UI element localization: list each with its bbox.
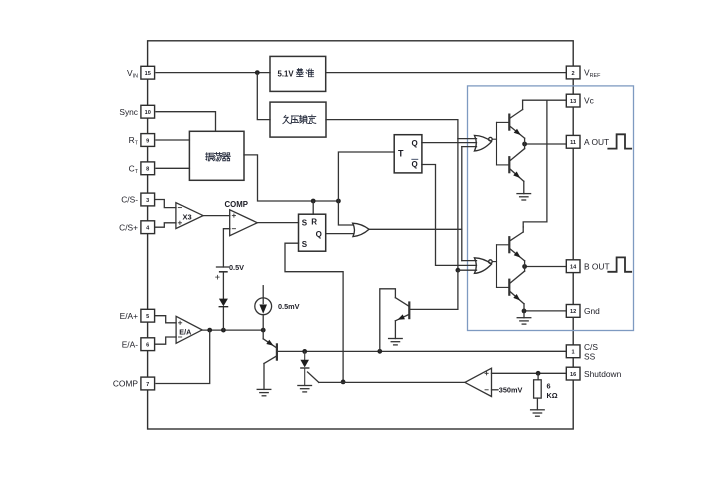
wire B lower emitter to Gnd pin [524,310,565,312]
wire T flip-flop Qbar to B NOR [422,165,477,266]
node Vin tap [255,70,260,75]
node E/A out current source [261,328,266,333]
svg-text:Vc: Vc [584,96,594,106]
pin 7 COMP [113,377,155,390]
pin 10 Sync [119,105,154,118]
NPN transistor Q3 (A upper) [509,100,524,144]
wire PWM bus [461,147,463,261]
wire comparator minus to 0.5V [223,229,230,267]
wire shutdown comparator output [319,381,465,383]
ground G2 (blanking emitter) [389,339,403,345]
svg-text:E/A+: E/A+ [120,311,138,321]
wire clamp diode diagonal to shutdown line [308,372,319,382]
NPN transistor Q4 (A lower) [509,144,524,194]
hanzi ZHUN (accurate) of 5.1V reference label [306,69,314,77]
node Gnd junction [522,309,527,314]
svg-text:5: 5 [146,314,149,320]
node A OUT [522,142,527,147]
wire E/A output line [202,329,263,331]
node E/A out to COMP pin riser [207,328,212,333]
error amplifier U8 [176,316,202,343]
ground G4 (A emitter) [517,194,531,200]
svg-text:B OUT: B OUT [584,261,610,271]
pin 15 Vin [127,66,155,79]
svg-text:11: 11 [570,140,576,146]
pin 8 CT [129,162,155,175]
svg-text:E/A: E/A [179,327,191,336]
wire UVLO output to NOR bus [326,120,477,139]
wire riser down to OR gate top input [338,201,353,225]
svg-text:Q: Q [412,139,418,148]
hanzi SUO (lock) of UVLO label [300,115,308,123]
svg-text:E/A-: E/A- [122,339,138,349]
node UVLO bus B NOR input [456,268,461,273]
svg-text:A OUT: A OUT [584,137,609,147]
svg-text:350mV: 350mV [499,386,523,395]
0.5V offset battery B1 [216,263,245,299]
svg-text:Q: Q [412,160,418,169]
wire Vin tap down to UVLO [257,73,270,120]
current source I1 0.5mV [255,298,300,315]
IC boundary outline [148,41,574,429]
wire latch lower S from shutdown line [285,243,343,382]
wire CT to oscillator [156,167,189,169]
svg-text:KΩ: KΩ [547,391,558,400]
NPN transistor Q2 (blanking) [380,289,410,352]
OR gate U12 (PWM) [353,223,370,236]
wire UVLO bus to B NOR input [458,269,477,271]
wire COMP pin 7 riser [156,330,210,383]
wire Sync to oscillator [156,112,216,132]
hanzi ZHEN (vibrate) of oscillator label [206,153,214,161]
wire oscillator output [244,155,338,201]
PNP transistor Q1 (current limit) [263,330,277,389]
resistor R1 6K [534,373,558,410]
ground G6 (resistor) [531,410,545,416]
node blanking collector junction [377,349,382,354]
wire E/A+ pin to error amp [155,316,177,323]
wire E/A- pin to error amp [155,337,177,344]
node E/A out diode branch [221,328,226,333]
wire Vin to 5.1V ref [156,72,270,74]
NPN transistor Q5 (B upper) [509,227,524,267]
svg-text:7: 7 [146,382,149,388]
wire diode branch vertical [222,307,224,330]
svg-text:14: 14 [570,265,577,271]
svg-text:6: 6 [547,381,551,390]
svg-text:8: 8 [146,167,149,173]
wire C/S SS line [278,350,566,352]
ground G1 (PNP collector) [257,389,271,395]
X3 current sense amplifier U6 [176,203,203,229]
pin 3 C/S- [121,193,154,206]
svg-text:S: S [302,240,308,249]
pin 1 C/S SS [566,342,598,361]
wire T flip-flop Q to A NOR [422,142,477,144]
NOR gate U10 (A output) [474,122,508,164]
node osc line to latch R [311,199,316,204]
svg-text:13: 13 [570,99,576,105]
wire C/S- pin to X3 [155,200,177,208]
clamp diode D2 [300,351,309,385]
svg-text:1: 1 [572,350,575,356]
wire PWM bus to B NOR input [462,260,477,262]
svg-text:15: 15 [145,71,151,77]
pin 14 B OUT [566,260,609,273]
svg-text:5.1V: 5.1V [278,70,295,79]
blue output-stage box [468,86,634,331]
pin 2 Vref [566,66,601,79]
pin 6 E/A- [122,338,155,351]
hanzi DING (lock/fix) of UVLO label [308,115,316,123]
svg-text:0.5mV: 0.5mV [278,302,300,311]
wire UVLO bus down [457,139,459,271]
svg-text:S: S [302,218,308,227]
pin 16 Shutdown [566,367,621,380]
pin 5 E/A+ [120,309,155,322]
wire riser to T flip-flop input [338,152,394,201]
svg-text:Q: Q [316,230,322,239]
pin 12 Gnd [566,305,600,318]
svg-text:Sync: Sync [119,107,138,117]
svg-text:12: 12 [570,309,576,315]
hanzi JI (base) of 5.1V reference label [296,68,303,76]
pin 9 RT [129,134,155,147]
ground G3 (clamp diode) [298,386,312,392]
node resistor tap [536,371,541,376]
svg-text:VIN: VIN [127,68,138,80]
svg-text:RT: RT [129,135,139,147]
svg-text:6: 6 [146,343,149,349]
pin 11 A OUT [566,135,609,148]
NOR gate U11 (B output) [474,245,508,288]
wire 5.1V ref to Vref pin [326,72,566,74]
wire shutdown plus input to pin 16 [492,372,567,374]
T flip-flop U4 [394,135,422,173]
wire shutdown minus stub [492,389,499,391]
wire X3 output to PWM comparator [203,215,230,217]
wire B totem Vc drop [523,100,547,227]
svg-text:Gnd: Gnd [584,306,600,316]
wire current source stem [262,286,264,298]
svg-text:COMP: COMP [113,379,139,389]
wire Vc rail [523,99,566,101]
svg-text:T: T [398,149,404,159]
diode D1 below battery [219,299,228,307]
svg-text:0.5V: 0.5V [229,263,244,272]
wire PWM bus to A NOR input [462,146,477,148]
oscillator block U3 [189,131,244,180]
svg-text:3: 3 [146,198,149,204]
waveform glyph B [608,257,631,271]
UVLO block U2 [270,102,326,137]
ground G5 (B emitter) [517,318,531,324]
svg-text:COMP: COMP [225,200,248,209]
wire latch R drop [312,201,314,214]
node B OUT [522,264,527,269]
waveform glyph A [608,134,631,148]
hanzi YA (pressure) of UVLO label [291,116,299,124]
svg-text:SS: SS [584,352,596,362]
wire C/S+ pin to X3 [155,223,177,227]
NPN transistor Q6 (B lower) [509,267,524,318]
svg-text:VREF: VREF [584,68,601,80]
shutdown comparator U9 [465,368,492,396]
PWM latch U5 [299,214,326,251]
svg-text:2: 2 [572,71,575,77]
5.1V reference block U1 [270,56,326,91]
svg-text:16: 16 [570,372,576,378]
PWM comparator U7 with COMP label [225,200,258,236]
wire UVLO bus to blanking transistor base [410,270,458,309]
wire latch Q to OR gate [326,233,354,235]
node osc line to toggle riser [336,199,341,204]
svg-text:C/S+: C/S+ [119,222,138,232]
node shutdown line junction [341,380,346,385]
wire OR gate output to PWM bus [369,228,462,230]
wire RT to oscillator [156,139,189,141]
hanzi QI (device) of oscillator label [222,153,230,161]
pin 4 C/S+ [119,221,154,234]
wire A OUT node to pin 11 [525,143,566,145]
svg-text:Shutdown: Shutdown [584,369,622,379]
node PNP base / clamp diode [302,349,307,354]
wire comparator output to latch S [257,222,298,224]
svg-text:9: 9 [146,138,149,144]
wire B OUT node to pin 14 [525,266,566,268]
svg-text:R: R [311,217,317,226]
svg-text:X3: X3 [183,213,192,222]
svg-text:10: 10 [145,110,151,116]
hanzi QIAN (owe) of UVLO label [283,115,290,123]
svg-text:CT: CT [129,163,139,175]
pin 13 Vc [566,94,593,107]
svg-text:C/S-: C/S- [121,195,138,205]
hanzi DANG (swing) of oscillator label [214,152,222,161]
